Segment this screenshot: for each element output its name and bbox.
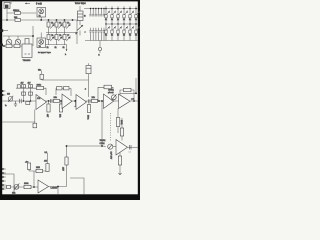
op-amp U5	[104, 94, 114, 109]
svg-text:1k: 1k	[135, 35, 137, 37]
node a1	[40, 19, 42, 21]
capacitor CL3a	[95, 8, 97, 16]
svg-text:100k: 100k	[120, 120, 122, 124]
svg-text:phase: phase	[108, 92, 114, 94]
connector J1	[4, 0, 11, 9]
svg-text:T2: T2	[51, 23, 53, 25]
capacitor CL4a	[98, 8, 100, 16]
svg-text:1k: 1k	[129, 19, 131, 21]
op-amp U2	[36, 95, 47, 110]
resistor R3	[14, 44, 20, 47]
wire bottom signal	[2, 186, 38, 188]
node p1	[2, 168, 6, 170]
wire column 9	[135, 8, 137, 41]
wire stub	[74, 101, 77, 107]
potentiometer VR1	[7, 94, 13, 102]
capacitor C14	[33, 122, 37, 128]
oscillator LFO	[100, 140, 117, 149]
node tap1	[98, 41, 101, 57]
svg-text:4k7: 4k7	[28, 83, 31, 85]
wire bus A	[2, 19, 79, 21]
svg-text:1k: 1k	[111, 19, 113, 21]
svg-text:10k: 10k	[59, 114, 61, 117]
wire feedback 5	[29, 170, 48, 172]
wire	[76, 20, 78, 44]
svg-text:33k: 33k	[14, 17, 17, 19]
svg-text:10k: 10k	[12, 193, 15, 195]
wire rail stubs	[106, 6, 136, 8]
capacitor CL3b	[95, 28, 97, 41]
transistor Q5	[47, 33, 54, 46]
svg-text:1uF 16V: 1uF 16V	[110, 152, 112, 160]
capacitor C9	[20, 99, 22, 103]
diode D2	[105, 11, 110, 21]
resistor R7	[29, 92, 33, 95]
wire feedback 4	[120, 90, 135, 102]
IC U1	[22, 44, 32, 62]
svg-text:C2R1: C2R1	[100, 143, 106, 145]
potentiometer VR3	[12, 183, 19, 194]
svg-text:out: out	[131, 97, 134, 100]
svg-text:22k: 22k	[92, 97, 95, 99]
op-amp U8	[38, 180, 58, 193]
svg-text:T8: T8	[39, 46, 41, 48]
wire speaker branch	[70, 178, 84, 194]
node n2	[60, 100, 62, 102]
wire	[2, 45, 22, 47]
resistor R4	[22, 85, 26, 88]
wire enclosure	[2, 174, 14, 194]
op-amp U3	[62, 94, 72, 109]
wire to LFO section	[67, 100, 106, 147]
potentiometer VR2	[111, 94, 116, 101]
svg-text:4k7: 4k7	[21, 83, 24, 85]
wire ganged link	[110, 113, 112, 141]
diode D9	[123, 26, 128, 36]
capacitor CL1a	[89, 8, 91, 16]
resistor R11	[54, 97, 60, 102]
node g2	[30, 100, 32, 102]
transistor Q9	[6, 36, 12, 45]
svg-text:T4: T4	[67, 23, 69, 25]
ground	[118, 173, 122, 174]
svg-text:1k: 1k	[63, 47, 65, 49]
wire column 6	[117, 8, 119, 41]
node p2	[2, 172, 6, 174]
wire matrix middle rail	[105, 23, 138, 24]
resistor R29	[7, 185, 11, 188]
op-amp U4	[76, 95, 87, 110]
wire	[49, 186, 67, 195]
node a5	[72, 19, 74, 21]
wire main signal line	[2, 100, 118, 102]
capacitor C13	[129, 145, 133, 154]
capacitor CL2a	[92, 8, 94, 16]
svg-text:TBA800: TBA800	[23, 59, 32, 62]
svg-text:1k: 1k	[105, 35, 107, 37]
svg-text:1k: 1k	[55, 47, 57, 49]
diode D5	[111, 26, 116, 36]
transistor Q3	[55, 20, 62, 33]
resistor R24	[25, 161, 31, 171]
svg-text:1k: 1k	[123, 19, 125, 21]
capacitor C12	[89, 99, 91, 103]
resistor R5	[29, 85, 33, 88]
svg-text:1k: 1k	[105, 19, 107, 21]
resistor R20	[120, 118, 123, 141]
node p6	[2, 188, 6, 190]
svg-text:100n: 100n	[87, 115, 89, 119]
transistor Q8	[37, 33, 46, 48]
node a4	[64, 19, 66, 21]
transistor Q2	[47, 20, 54, 33]
diode D8	[123, 11, 128, 21]
wire bias line	[120, 92, 136, 94]
resistor R14	[57, 87, 63, 90]
wire bus B	[46, 32, 78, 34]
node n3	[74, 100, 76, 102]
svg-text:T1: T1	[39, 15, 41, 17]
svg-text:1k: 1k	[123, 35, 125, 37]
label row2 values	[47, 47, 65, 49]
label +9 volt	[25, 3, 42, 6]
capacitor CL1b	[89, 28, 91, 41]
diode D13	[135, 26, 140, 36]
resistor R18	[124, 88, 132, 91]
resistor R22	[24, 183, 31, 189]
transistor Q7	[63, 33, 70, 46]
resistor R12	[46, 101, 50, 118]
diode D7	[117, 26, 122, 36]
svg-text:T7: T7	[67, 35, 69, 37]
node b2	[0, 44, 3, 46]
svg-text:100k: 100k	[24, 183, 28, 185]
resistor R1	[25, 39, 29, 45]
wire column 7	[123, 8, 125, 41]
node p3	[2, 176, 6, 178]
diode D4	[111, 11, 116, 21]
resistor R10	[37, 84, 44, 89]
capacitor CL4b	[98, 28, 100, 41]
node in2	[2, 94, 6, 96]
capacitor C11	[84, 63, 91, 97]
node tap2	[46, 45, 68, 57]
svg-text:1N914: 1N914	[13, 10, 20, 12]
svg-text:1k: 1k	[129, 35, 131, 37]
wire output	[130, 97, 138, 101]
svg-text:1k: 1k	[111, 35, 113, 37]
svg-text:tone taps: tone taps	[75, 1, 86, 5]
svg-text:1k: 1k	[47, 47, 49, 49]
svg-text:+9v: +9v	[25, 161, 28, 163]
svg-text:10n: 10n	[38, 70, 41, 72]
wire feedback 1	[16, 88, 46, 95]
node n1	[48, 100, 50, 102]
node p5	[2, 184, 6, 186]
svg-text:10k: 10k	[54, 97, 57, 99]
resistor R31	[14, 17, 21, 22]
capacitor CL5b	[100, 28, 102, 41]
resistor R26	[62, 145, 69, 186]
wire column 8	[129, 8, 131, 41]
capacitor C10	[51, 99, 53, 103]
transistor Q6	[55, 33, 62, 46]
svg-text:1k: 1k	[135, 19, 137, 21]
node g1	[23, 100, 25, 102]
wire mix bus	[42, 79, 89, 81]
svg-text:1M: 1M	[7, 94, 10, 96]
svg-text:c: c	[85, 32, 86, 34]
diode D12	[135, 11, 140, 21]
resistor R6	[22, 92, 26, 95]
node in1	[2, 90, 6, 92]
svg-text:c: c	[85, 16, 86, 18]
resistor R25	[44, 152, 49, 172]
wire	[30, 85, 32, 101]
svg-text:in: in	[5, 105, 7, 107]
transistor Q1	[37, 8, 46, 18]
op-amp U7	[116, 140, 128, 156]
svg-text:LM380: LM380	[51, 188, 58, 190]
diode D10	[129, 11, 134, 21]
transistor Q10	[15, 36, 21, 45]
node n5	[33, 171, 35, 188]
resistor R21	[110, 152, 122, 173]
resistor R28	[64, 87, 70, 90]
wire	[32, 26, 34, 46]
wire	[128, 146, 138, 148]
node b1	[0, 29, 8, 32]
diode D3	[105, 26, 110, 36]
svg-text:T5: T5	[51, 35, 53, 37]
svg-text:9 volt: 9 volt	[36, 3, 42, 6]
svg-text:T3: T3	[59, 23, 61, 25]
svg-text:to upper taps: to upper taps	[38, 51, 52, 54]
resistor R27	[38, 70, 43, 80]
diode D6	[117, 11, 122, 21]
wire	[6, 9, 36, 21]
resistor R13	[59, 101, 63, 117]
node b3	[32, 35, 34, 37]
transistor Q11	[76, 25, 84, 36]
wire column 4	[105, 8, 107, 41]
wire tone box	[2, 110, 35, 123]
capacitor CL6b	[103, 28, 105, 41]
op-amp U6	[119, 94, 131, 109]
transistor Q4	[63, 20, 70, 33]
wire	[135, 78, 137, 94]
node a3	[56, 19, 58, 21]
wire	[23, 85, 25, 101]
resistor R2	[6, 44, 12, 47]
svg-text:750R2: 750R2	[100, 140, 107, 142]
svg-text:1k: 1k	[117, 19, 119, 21]
ground	[14, 101, 17, 107]
capacitor C8	[17, 85, 20, 88]
node a2	[48, 19, 50, 21]
wire matrix top rail	[84, 8, 138, 10]
resistor R16	[87, 103, 91, 119]
wire	[40, 17, 42, 20]
wire matrix bottom rail	[85, 40, 138, 42]
node p4	[2, 180, 6, 182]
capacitor CL6a	[103, 8, 105, 16]
diode D1	[13, 10, 21, 15]
diode D11	[129, 26, 134, 36]
wire	[3, 35, 34, 37]
wire feedback 2	[56, 89, 71, 97]
svg-text:T6: T6	[59, 35, 61, 37]
svg-text:100k: 100k	[37, 84, 41, 86]
node n4	[98, 100, 100, 102]
resistor R15	[92, 97, 98, 102]
capacitor CL5a	[100, 8, 102, 16]
resistor R30	[26, 102, 30, 105]
resistor R23	[36, 167, 43, 173]
resistor R17	[104, 85, 112, 89]
svg-text:1k: 1k	[117, 35, 119, 37]
capacitor CL2b	[92, 28, 94, 41]
capacitor C1	[78, 6, 87, 25]
wire column 5	[111, 8, 113, 41]
resistor R19	[116, 109, 122, 134]
wire feedback 3	[98, 87, 113, 101]
